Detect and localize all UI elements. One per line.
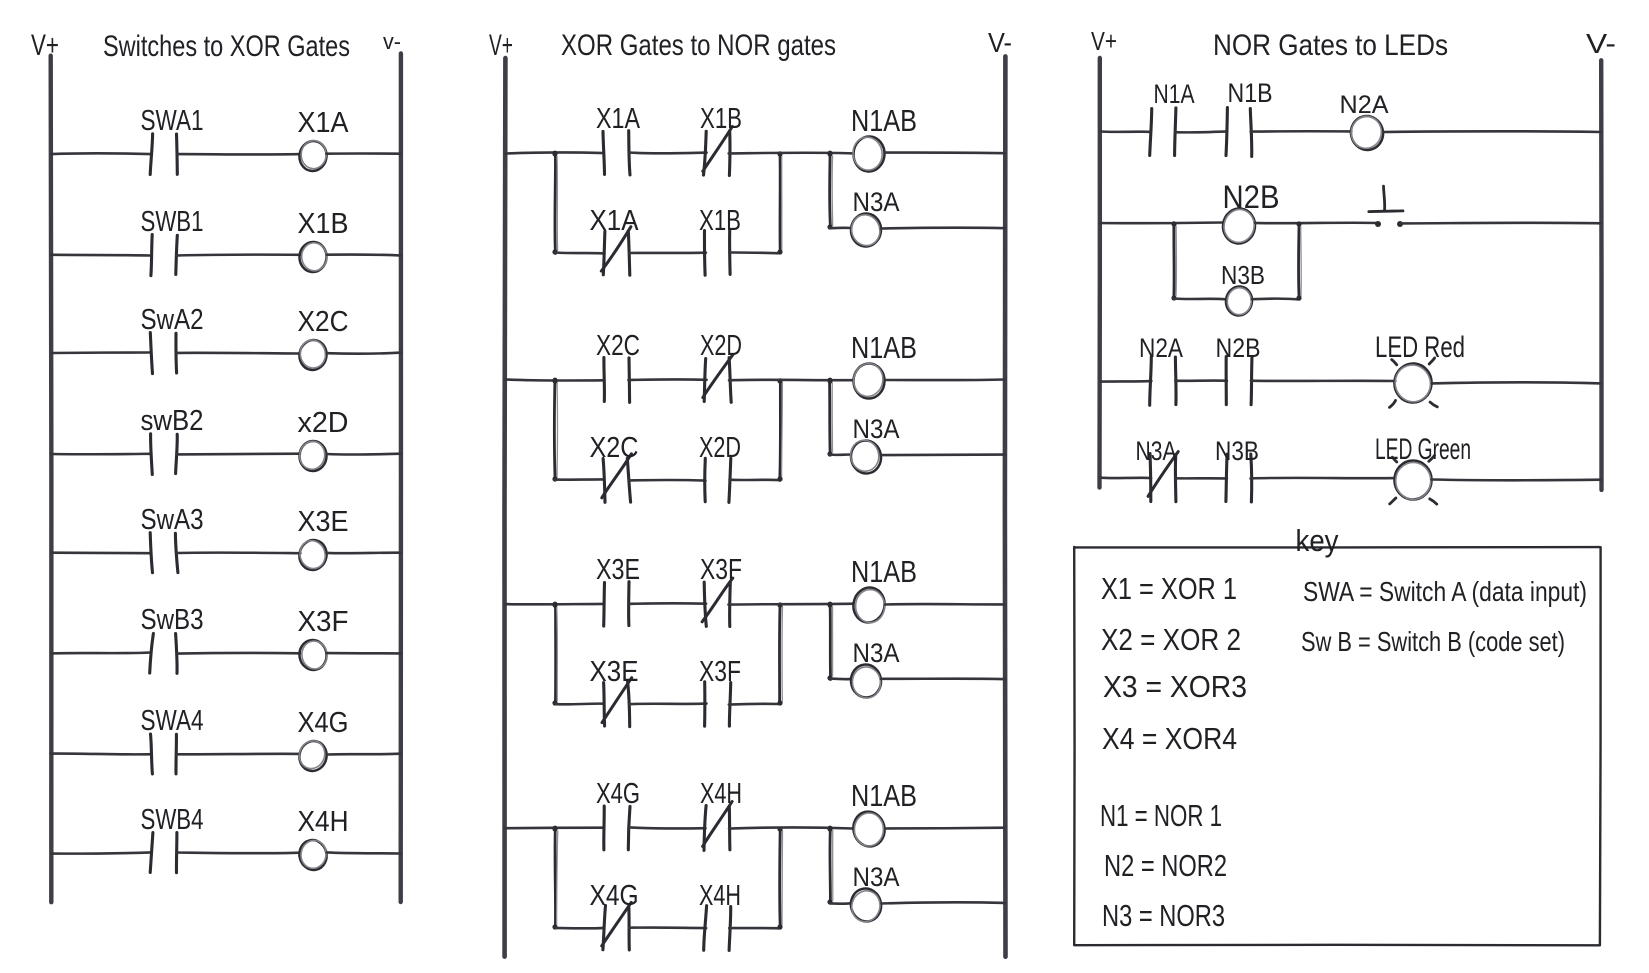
coil N3A (group 3 NOR output coil) [849,663,882,700]
wire group 1 upper branch between contacts [630,151,707,154]
junction group 3 output split node [828,602,833,607]
svg-text:SWA = Switch A (data input): SWA = Switch A (data input) [1303,576,1587,607]
svg-text:X4G: X4G [596,778,640,810]
svg-text:X1A: X1A [590,205,640,237]
wire group 1 main rung from V+ rail (ladder 2) [505,152,604,153]
svg-text:N3A: N3A [853,414,900,444]
contact X1B normally-open (lower branch) [704,231,730,276]
contact X3F normally-open (lower branch) [705,682,731,726]
svg-text:N2B: N2B [1216,333,1261,363]
wire ladder3 rung1 between contacts [1175,130,1227,134]
coil N3B [1224,285,1254,318]
coil N3A (group 2 NOR output coil) [848,438,883,476]
svg-text:V-: V- [1586,28,1616,59]
svg-text:X3E: X3E [596,554,640,586]
wire group 1 output branch vertical [827,151,832,229]
coil N3A (group 1 NOR output coil) [848,211,884,249]
wire ladder3 rung2 after coil [1255,221,1378,224]
wire ladder3 rung3 left segment [1100,380,1151,383]
svg-text:V-: V- [988,27,1012,58]
svg-text:V+: V+ [1091,26,1117,56]
junction group 4 branch split node [553,826,558,831]
svg-text:N3B: N3B [1221,260,1265,290]
wire group 3 N3A rung to V- rail [881,677,1005,680]
wire rung 8 right segment (ladder 1) [327,852,401,853]
svg-text:N3B: N3B [1215,436,1259,466]
wire group 3 main rung to V- rail [885,603,1005,606]
svg-text:X3E: X3E [590,656,639,688]
wire group 3 upper branch between contacts [628,602,706,605]
wire group 3 branch rejoin vertical [777,602,782,705]
contact X1A normally-open (upper branch) [603,131,630,175]
contact X2C normally-closed (lower branch) [602,454,632,503]
wire rung 1 middle segment (ladder 1) [177,153,301,156]
contact SwA3 (normally-open switch contact) [150,533,178,573]
wire ladder3 rung1 middle segment [1251,130,1352,133]
wire group 2 lower branch left segment [555,478,604,481]
contact X1A normally-closed (lower branch) [601,227,631,276]
contact SwB3 (normally-open switch contact) [150,633,177,673]
wire group 2 main rung to V- rail [886,378,1005,381]
wire group 2 main rung after contacts [729,379,853,382]
wire rung 4 middle segment (ladder 1) [177,452,300,455]
coil X3E (XOR input relay coil) [296,537,329,573]
junction group 2 output split node [828,378,833,383]
svg-text:N1AB: N1AB [851,778,917,813]
wire ladder3 rung2 left segment [1100,221,1224,224]
wire ladder3 rung4 right segment [1432,478,1602,481]
wire rung 3 middle segment (ladder 1) [177,351,300,354]
svg-text:N2A: N2A [1139,333,1183,363]
svg-text:LED Red: LED Red [1375,331,1465,364]
contact SwA2 (normally-open switch contact) [150,333,176,374]
coil x2D (XOR input relay coil) [298,439,327,471]
svg-text:N2A: N2A [1340,91,1389,119]
wire ladder3 rung2 right segment [1400,221,1601,224]
contact X3F normally-closed (upper branch) [702,578,733,626]
svg-text:N3A: N3A [853,638,900,668]
svg-text:swB2: swB2 [141,405,204,437]
wire rung 1 left segment (ladder 1) [51,152,151,155]
wire rung 2 middle segment (ladder 1) [177,253,301,256]
contact X4H normally-closed (upper branch) [703,802,733,851]
coil X4G (XOR input relay coil) [296,737,330,774]
wire rung 1 right segment (ladder 1) [327,152,401,155]
svg-text:SwB3: SwB3 [141,604,204,636]
power rail V+ (ladder 2 left rail) [502,58,507,957]
svg-text:X3 = XOR3: X3 = XOR3 [1103,669,1247,704]
wire rung 5 left segment (ladder 1) [51,551,151,554]
wire group 4 N3A stub to coil [831,902,851,905]
svg-text:X4 = XOR4: X4 = XOR4 [1102,721,1237,756]
svg-text:X2C: X2C [590,432,639,464]
svg-text:SWB1: SWB1 [141,206,204,238]
svg-text:N3 = NOR3: N3 = NOR3 [1102,898,1225,933]
wire group 2 lower branch right segment [730,478,781,481]
wire N3B parallel branch bottom-left segment [1174,297,1225,300]
contact X1B normally-closed (upper branch) [703,127,733,176]
contact N3A normally-closed [1148,452,1178,502]
wire ladder3 rung3 between contacts [1175,379,1227,382]
wire rung 6 left segment (ladder 1) [51,651,151,655]
wire rung 2 left segment (ladder 1) [51,253,151,256]
svg-text:N1AB: N1AB [851,330,917,365]
wire group 1 N3A stub to coil [830,226,852,229]
svg-text:X4H: X4H [298,806,349,838]
power rail V- (ladder 1 right rail) [398,53,403,902]
svg-text:X1A: X1A [298,107,350,139]
contact X3E normally-closed (lower branch) [602,678,632,727]
svg-text:NOR Gates to LEDs: NOR Gates to LEDs [1213,29,1448,62]
svg-text:Switches to XOR Gates: Switches to XOR Gates [103,30,350,63]
svg-text:X3F: X3F [700,554,742,586]
svg-text:N1AB: N1AB [851,103,917,138]
coil X4H (XOR input relay coil) [296,837,329,873]
wire group 4 upper branch between contacts [629,827,705,828]
wire group 1 lower branch between contacts [629,251,706,254]
junction group 4 output split node [828,826,833,831]
wire group 1 branch-down segment at split [552,151,557,254]
coil N2B [1220,206,1257,246]
junction group 2 branch split node [553,378,558,383]
power rail V- (ladder 3 right rail) [1599,60,1604,490]
wire group 4 output branch vertical [827,826,832,904]
contact N1B normally-open [1226,108,1252,157]
contact SWA1 (normally-open switch contact) [150,134,177,175]
wire rung 8 middle segment (ladder 1) [177,851,300,854]
svg-text:SwA2: SwA2 [141,304,204,336]
contact X2D normally-open (lower branch) [705,458,731,502]
contact SWB4 (normally-open switch contact) [150,833,177,873]
svg-text:X1 = XOR 1: X1 = XOR 1 [1101,571,1237,606]
svg-text:V+: V+ [31,29,59,62]
svg-text:N1AB: N1AB [851,554,917,589]
wire group 3 lower branch between contacts [629,702,707,705]
wire group 4 lower branch left segment [555,927,604,930]
svg-text:key: key [1296,523,1339,558]
wire group 1 branch rejoin vertical [777,151,782,254]
coil X1A (XOR input relay coil) [297,139,329,173]
contact swB2 (normally-open switch contact) [151,434,178,475]
wire group 2 branch rejoin vertical [777,378,782,481]
wire group 1 N3A rung to V- rail [881,226,1005,229]
contact SWB1 (normally-open switch contact) [151,235,177,276]
svg-text:N1 = NOR 1: N1 = NOR 1 [1100,798,1222,833]
wire group 4 main rung from V+ rail (ladder 2) [505,826,604,829]
coil X3F (XOR input relay coil) [297,638,329,672]
contact N1A normally-open [1150,108,1176,156]
svg-text:N2 = NOR2: N2 = NOR2 [1104,848,1227,883]
power rail V- (ladder 2 right rail) [1002,56,1007,956]
svg-text:V+: V+ [489,29,513,62]
wire ladder3 rung1 left segment [1100,130,1151,133]
wire rung 8 left segment (ladder 1) [51,852,151,853]
svg-text:N1B: N1B [1228,78,1273,108]
wire rung 3 left segment (ladder 1) [52,351,151,354]
junction group 1 branch split node [553,151,558,156]
wire rung 7 right segment (ladder 1) [328,752,401,756]
coil N2A [1347,113,1386,154]
svg-text:SWA4: SWA4 [141,705,204,737]
power rail V+ (ladder 1 left rail) [48,56,53,903]
svg-text:N3A: N3A [853,862,900,892]
svg-text:N2B: N2B [1223,179,1280,215]
wire group 3 main rung after contacts [729,602,854,605]
wire group 4 main rung after contacts [729,828,853,829]
wire group 2 main rung from V+ rail (ladder 2) [505,379,604,380]
contact N3B normally-open [1226,454,1252,502]
svg-text:Sw B = Switch B (code set): Sw B = Switch B (code set) [1301,626,1565,657]
wire group 2 output branch vertical [827,378,832,456]
wire group 4 main rung to V- rail [885,826,1004,829]
wire group 3 lower branch left segment [555,702,604,705]
wire group 3 N3A stub to coil [831,677,852,680]
contact X4H normally-open (lower branch) [704,906,731,951]
wire N3B parallel branch bottom-right segment [1252,297,1300,300]
wire group 4 branch-down segment at split [552,826,557,929]
wire ladder3 rung4 between contacts [1175,477,1227,480]
contact X3E normally-open (upper branch) [604,582,629,626]
junction group 1 output split node [828,151,833,156]
wire group 3 main rung from V+ rail (ladder 2) [505,603,604,606]
svg-text:SWA1: SWA1 [141,105,204,137]
wire N3B parallel branch right vertical [1296,221,1301,300]
wire group 2 N3A rung to V- rail [882,453,1006,456]
svg-text:XOR Gates to NOR gates: XOR Gates to NOR gates [561,29,836,62]
contact N2B normally-open [1226,357,1252,405]
contact X2C normally-open (upper branch) [604,358,630,403]
wire group 1 main rung after contacts [729,151,853,154]
wire group 3 output branch vertical [827,602,832,680]
svg-text:N3A: N3A [853,187,900,217]
wire rung 4 right segment (ladder 1) [327,452,401,455]
coil N1AB (group 3 NOR output coil) [850,585,888,626]
svg-text:X4G: X4G [298,707,349,739]
wire group 3 lower branch right segment [729,703,780,706]
svg-text:X2D: X2D [699,432,741,464]
wire group 4 lower branch right segment [729,927,780,930]
wire group 4 branch rejoin vertical [777,826,782,929]
svg-text:SwA3: SwA3 [141,504,204,536]
svg-text:X1B: X1B [699,205,741,237]
coil N1AB (group 4 NOR output coil) [850,808,888,849]
svg-text:SWB4: SWB4 [141,804,204,836]
coil N3A (group 4 NOR output coil) [848,885,885,924]
wire rung 3 right segment (ladder 1) [327,353,401,354]
svg-text:X3F: X3F [699,656,741,688]
coil N1AB (group 2 NOR output coil) [851,361,886,399]
svg-text:X2 = XOR 2: X2 = XOR 2 [1101,622,1241,657]
svg-text:v-: v- [383,29,401,54]
wire N3B parallel branch left vertical [1171,221,1176,300]
svg-text:X2C: X2C [596,330,640,362]
svg-text:X4H: X4H [699,880,741,912]
wire group 4 lower branch between contacts [629,926,706,929]
key box frame [1074,547,1600,945]
wire ladder3 rung1 right segment [1383,130,1601,133]
wire rung 7 left segment (ladder 1) [51,752,152,755]
wire group 2 branch-down segment at split [552,378,557,481]
wire rung 7 middle segment (ladder 1) [177,753,300,756]
wire group 4 N3A rung to V- rail [881,902,1004,903]
coil N1AB (group 1 NOR output coil) [851,135,886,172]
LED Green indicator lamp [1390,456,1437,505]
svg-text:X4G: X4G [590,880,639,912]
svg-text:N3A: N3A [1136,436,1177,466]
contact X4G normally-closed (lower branch) [602,902,632,950]
contact N2A normally-open [1150,357,1176,406]
svg-text:N1A: N1A [1154,79,1195,109]
coil X1B (XOR input relay coil) [298,241,327,273]
coil X2C (XOR input relay coil) [297,338,329,372]
wire group 2 lower branch between contacts [629,479,705,482]
wire ladder3 rung3 middle segment [1251,379,1395,382]
svg-text:x2D: x2D [298,407,349,439]
contact X2D normally-closed (upper branch) [703,355,733,403]
wire ladder3 rung4 middle segment [1251,477,1396,480]
wire group 3 branch-down segment at split [552,602,557,705]
svg-text:X3E: X3E [298,506,349,538]
contact SWA4 (normally-open switch contact) [151,734,177,774]
svg-text:LED Green: LED Green [1375,433,1471,466]
wire rung 5 right segment (ladder 1) [327,551,401,554]
wire rung 2 right segment (ladder 1) [327,253,401,257]
svg-text:X2C: X2C [298,306,349,338]
junction group 3 branch split node [553,602,558,607]
wire rung 6 middle segment (ladder 1) [178,652,301,655]
svg-text:X2D: X2D [700,330,742,362]
wire group 1 lower branch right segment [729,251,780,254]
LED Red indicator lamp [1390,358,1438,408]
wire group 1 main rung to V- rail [885,151,1005,154]
power rail V+ (ladder 3 left rail) [1097,58,1102,488]
wire ladder3 rung3 right segment [1432,382,1601,383]
wire group 1 lower branch left segment [555,251,604,254]
svg-text:X1A: X1A [596,103,641,135]
wire rung 4 left segment (ladder 1) [51,452,150,455]
svg-text:X4H: X4H [700,778,742,810]
svg-text:X1B: X1B [298,208,349,240]
junction rung2 gap right terminal [1397,221,1403,227]
wire group 2 N3A stub to coil [830,453,851,456]
wire rung 6 right segment (ladder 1) [327,652,402,655]
contact X4G normally-open (upper branch) [604,806,630,850]
wire rung 5 middle segment (ladder 1) [177,551,300,554]
wire ladder3 rung4 left segment [1100,476,1151,479]
junction rung2 gap left terminal [1375,221,1381,227]
svg-text:X1B: X1B [700,103,742,135]
wire group 2 upper branch between contacts [628,378,706,381]
normally-open pushbutton contact symbol (inverted-T) on rung2 [1369,186,1403,212]
svg-text:X3F: X3F [298,606,349,638]
